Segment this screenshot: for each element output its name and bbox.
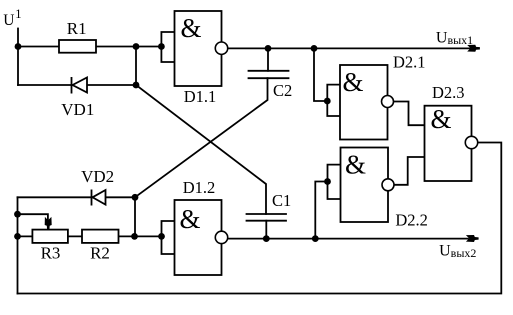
svg-text:D1.2: D1.2: [183, 178, 216, 197]
svg-text:&: &: [342, 67, 363, 97]
svg-text:VD2: VD2: [81, 167, 114, 186]
svg-text:R1: R1: [67, 19, 87, 38]
svg-text:U: U: [3, 12, 14, 29]
svg-text:&: &: [345, 150, 366, 180]
svg-text:D2.2: D2.2: [395, 211, 428, 230]
svg-text:&: &: [430, 104, 451, 134]
svg-text:C2: C2: [273, 81, 292, 100]
svg-text:Uвых1: Uвых1: [436, 30, 473, 48]
svg-text:R3: R3: [41, 244, 61, 263]
svg-text:1: 1: [15, 7, 21, 21]
svg-text:VD1: VD1: [61, 100, 94, 119]
svg-text:D2.1: D2.1: [393, 52, 426, 71]
svg-text:C1: C1: [272, 191, 291, 210]
svg-text:R2: R2: [90, 244, 110, 263]
svg-text:Uвых2: Uвых2: [439, 243, 476, 261]
svg-text:D2.3: D2.3: [432, 83, 465, 102]
svg-text:&: &: [179, 204, 200, 234]
svg-text:D1.1: D1.1: [184, 87, 217, 106]
svg-text:&: &: [180, 13, 201, 43]
